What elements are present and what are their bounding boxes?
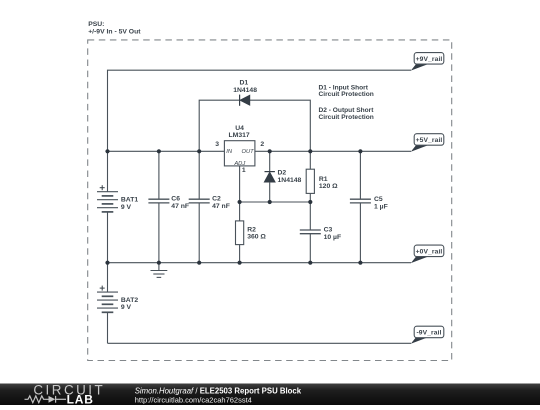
svg-text:1N4148: 1N4148 (278, 177, 302, 184)
resistor R1 (306, 151, 314, 202)
svg-text:+/-9V In - 5V Out: +/-9V In - 5V Out (88, 29, 141, 36)
svg-text:BAT1: BAT1 (121, 197, 138, 204)
label C3 (324, 227, 342, 241)
label D1 (233, 80, 257, 94)
op-amp U4 LM317 box (224, 141, 255, 166)
net flag +5V_rail (411, 134, 444, 152)
annotation D2 protection (319, 107, 375, 121)
wire mid output (255, 150, 411, 152)
label D2 (278, 170, 302, 184)
svg-text:360 Ω: 360 Ω (247, 234, 266, 241)
svg-text:9 V: 9 V (121, 204, 132, 211)
svg-text:+5V_rail: +5V_rail (416, 137, 443, 144)
svg-text:1N4148: 1N4148 (233, 87, 257, 94)
svg-text:C3: C3 (324, 227, 333, 234)
svg-text:PSU:: PSU: (88, 21, 104, 28)
wire top +9V (108, 70, 412, 151)
label BAT1 (121, 197, 138, 211)
net flag +0V_rail (411, 245, 444, 263)
svg-text:D2: D2 (278, 170, 287, 177)
capacitor C5 (350, 151, 371, 262)
svg-text:+9V_rail: +9V_rail (416, 56, 443, 63)
svg-text:D2 - Output Short: D2 - Output Short (319, 107, 375, 114)
label R2 (247, 226, 266, 240)
node junction dots (105, 149, 362, 265)
svg-text:R1: R1 (319, 176, 328, 183)
svg-text:47 nF: 47 nF (212, 203, 230, 210)
resistor R2 (236, 202, 244, 263)
battery BAT1 (97, 192, 118, 263)
ground (151, 263, 168, 278)
svg-text:-9V_rail: -9V_rail (416, 329, 441, 336)
capacitor C3 (300, 202, 321, 263)
svg-text:http://circuitlab.com/ca2cah76: http://circuitlab.com/ca2cah762sst4 (135, 395, 252, 404)
battery BAT2 plus (100, 286, 105, 291)
svg-text:Circuit Protection: Circuit Protection (319, 91, 374, 98)
svg-text:C5: C5 (374, 196, 383, 203)
label BAT2 (121, 297, 138, 311)
svg-text:C6: C6 (171, 196, 180, 203)
net flag +9V_rail (411, 53, 444, 71)
footer bar (0, 384, 540, 406)
svg-text:BAT2: BAT2 (121, 297, 138, 304)
wire D1 loop right (250, 100, 311, 151)
wire -9V rail (108, 342, 412, 344)
diode D2 (264, 151, 275, 202)
svg-text:D1: D1 (240, 80, 249, 87)
label C6 (171, 196, 189, 210)
svg-text:1 µF: 1 µF (374, 203, 388, 210)
svg-text:OUT: OUT (241, 149, 254, 155)
svg-text:C2: C2 (212, 196, 221, 203)
logo resistor zigzag and diode (25, 396, 67, 403)
svg-text:IN: IN (226, 149, 233, 155)
svg-text:R2: R2 (247, 226, 256, 233)
wire ADJ node horizontal (240, 201, 311, 203)
svg-text:120 Ω: 120 Ω (319, 183, 338, 190)
label C2 (212, 196, 230, 210)
diode D1 (240, 95, 250, 106)
svg-text:U4: U4 (235, 125, 244, 132)
battery BAT1 plus (100, 185, 105, 190)
net flag -9V_rail (411, 326, 444, 344)
svg-text:+0V_rail: +0V_rail (416, 248, 443, 255)
svg-text:Simon.Houtgraaf / ELE2503 Repo: Simon.Houtgraaf / ELE2503 Report PSU Blo… (135, 386, 302, 395)
svg-text:2: 2 (260, 141, 264, 148)
wire D1 loop left (199, 100, 239, 151)
wire left battery column (107, 151, 109, 191)
svg-text:LAB: LAB (67, 393, 94, 406)
wire 0V rail (108, 262, 412, 264)
title PSU (88, 21, 141, 35)
dashed border frame (88, 40, 452, 361)
capacitor C6 (148, 151, 169, 262)
svg-text:3: 3 (215, 141, 219, 148)
svg-text:10 µF: 10 µF (324, 234, 342, 241)
svg-text:9 V: 9 V (121, 304, 132, 311)
wire mid input (108, 150, 225, 152)
label U4 (229, 125, 250, 139)
svg-text:LM317: LM317 (229, 132, 250, 139)
capacitor C2 (189, 151, 210, 262)
svg-text:47 nF: 47 nF (171, 203, 189, 210)
battery BAT2 (97, 263, 118, 344)
svg-text:1: 1 (242, 167, 246, 174)
label R1 (319, 176, 338, 190)
label C5 (374, 196, 388, 210)
wire ADJ pin (239, 166, 241, 202)
annotation D1 protection (319, 84, 374, 98)
svg-text:Circuit Protection: Circuit Protection (319, 114, 374, 121)
